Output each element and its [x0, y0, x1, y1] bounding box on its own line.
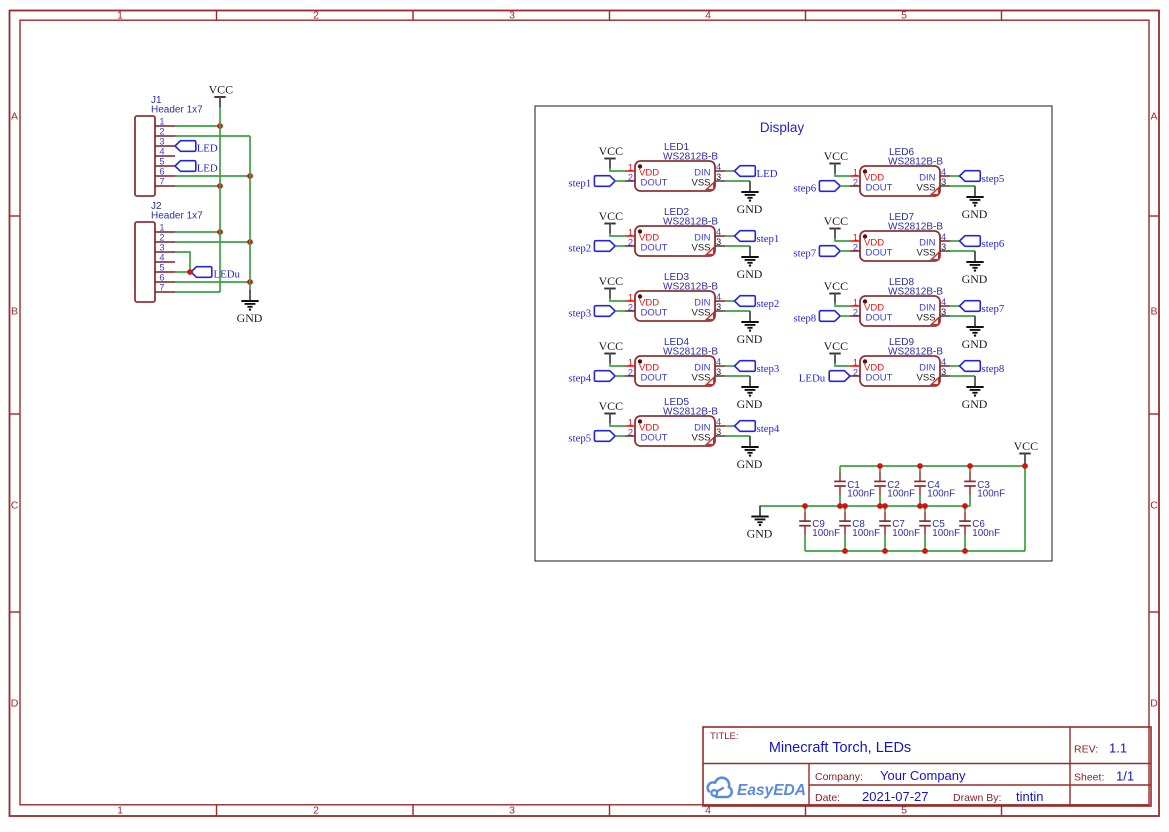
svg-text:1: 1 [853, 298, 858, 308]
svg-text:DOUT: DOUT [866, 313, 893, 324]
net label step3 at LED4 pin4 [735, 361, 780, 376]
wire LED3 pin3 to GND [725, 310, 750, 312]
svg-text:Display: Display [760, 120, 805, 135]
svg-text:step5: step5 [982, 173, 1005, 185]
net flag step1 at LED1 pin2 [568, 176, 615, 190]
connector J1 (Header 1x7) [135, 95, 203, 196]
svg-text:step3: step3 [568, 308, 591, 320]
LED9 pin 3 (VSS) [940, 367, 950, 377]
wire LED2 pin3 to GND [725, 245, 750, 247]
svg-text:100nF: 100nF [892, 528, 920, 539]
wire LED6 pin3 to GND [950, 185, 975, 187]
wire LED9 pin3 to GND [950, 375, 975, 377]
wire GND vertical net (left) [249, 136, 251, 292]
wire LED1 pin4 to net label LED [725, 170, 735, 172]
svg-text:VSS: VSS [691, 433, 710, 444]
net label LED at LED1 pin4 [735, 166, 778, 181]
svg-text:Date:: Date: [815, 792, 840, 804]
svg-text:3: 3 [159, 243, 164, 253]
wire GND middle rail (capacitor bank) [760, 505, 970, 507]
wire VCC to LED4 pin1 [610, 363, 625, 366]
svg-text:4: 4 [716, 227, 721, 237]
svg-text:1: 1 [159, 117, 164, 127]
capacitor C8 100nF [839, 506, 880, 551]
svg-text:step7: step7 [982, 303, 1005, 315]
svg-text:Company:: Company: [815, 771, 863, 783]
svg-text:3: 3 [941, 177, 946, 187]
svg-text:step6: step6 [793, 183, 816, 195]
svg-text:step1: step1 [757, 233, 780, 245]
wire VCC bottom rail (capacitor bank) [805, 550, 1025, 552]
LED8 pin 4 (DIN) [940, 297, 950, 307]
LED1 pin 1 (VDD) [625, 163, 635, 173]
LED8 pin 3 (VSS) [940, 307, 950, 317]
svg-text:3: 3 [941, 307, 946, 317]
svg-text:1.1: 1.1 [1109, 741, 1127, 756]
svg-text:WS2812B-B: WS2812B-B [888, 287, 943, 298]
svg-text:VSS: VSS [916, 183, 935, 194]
ground GND at LED3 [737, 311, 763, 346]
junction J1 pin7 / VCC [217, 183, 223, 189]
wire step3 to LED3 pin2 [615, 310, 625, 312]
LED6 pin 1 (VDD) [850, 168, 860, 178]
connector J2 (Header 1x7) [135, 201, 203, 302]
LED5 pin 3 (VSS) [715, 427, 725, 437]
wire step5 to LED5 pin2 [615, 435, 625, 437]
wire VCC to LED6 pin1 [835, 173, 850, 176]
wire LED9 pin4 to net label step8 [950, 365, 960, 367]
svg-text:4: 4 [716, 162, 721, 172]
svg-text:2: 2 [159, 127, 164, 137]
svg-text:3: 3 [716, 427, 721, 437]
op-amp-style IC LED8 WS2812B-B body [860, 277, 943, 326]
svg-text:VSS: VSS [691, 178, 710, 189]
svg-text:WS2812B-B: WS2812B-B [663, 217, 718, 228]
wire step7 to LED7 pin2 [840, 250, 850, 252]
svg-text:VSS: VSS [691, 308, 710, 319]
svg-text:4: 4 [716, 357, 721, 367]
svg-text:100nF: 100nF [932, 528, 960, 539]
LED2 pin 1 (VDD) [625, 228, 635, 238]
svg-text:1: 1 [159, 223, 164, 233]
wire LED1 pin3 to GND [725, 180, 750, 182]
wire step4 to LED4 pin2 [615, 375, 625, 377]
svg-text:100nF: 100nF [972, 528, 1000, 539]
svg-text:DOUT: DOUT [641, 178, 668, 189]
svg-text:2: 2 [628, 428, 633, 438]
junction J1 pin6 / GND [247, 173, 253, 179]
J1 pin 5 [155, 157, 175, 167]
svg-text:4: 4 [705, 10, 711, 22]
LED8 pin 1 (VDD) [850, 298, 860, 308]
ground GND at LED8 [962, 316, 988, 351]
svg-text:step2: step2 [568, 243, 591, 255]
svg-text:2: 2 [853, 308, 858, 318]
svg-text:1: 1 [628, 418, 633, 428]
svg-text:LEDu: LEDu [214, 269, 241, 281]
svg-text:WS2812B-B: WS2812B-B [663, 407, 718, 418]
svg-text:3: 3 [716, 172, 721, 182]
capacitor C1 100nF [834, 466, 875, 506]
wire VCC to LED5 pin1 [610, 423, 625, 426]
net label LEDu on J2 pin5 [191, 267, 240, 281]
J1 pin 4 [155, 147, 175, 157]
svg-text:2: 2 [853, 178, 858, 188]
svg-text:WS2812B-B: WS2812B-B [888, 347, 943, 358]
junction J2 pin6 / GND [247, 279, 253, 285]
net flag step6 at LED6 pin2 [793, 181, 840, 195]
J2 pin 5 [155, 263, 175, 273]
op-amp-style IC LED2 WS2812B-B body [635, 207, 718, 256]
svg-text:step1: step1 [568, 178, 591, 190]
wire LED6 pin4 to net label step5 [950, 175, 960, 177]
junctions GND middle rail [802, 503, 968, 509]
svg-text:2: 2 [628, 303, 633, 313]
svg-text:C: C [11, 500, 19, 512]
ground GND at LED6 [962, 186, 988, 221]
svg-text:1: 1 [628, 228, 633, 238]
J2 pin 4 [155, 253, 175, 263]
svg-text:DOUT: DOUT [641, 308, 668, 319]
wire VCC to LED9 pin1 [835, 363, 850, 366]
svg-text:7: 7 [159, 283, 164, 293]
svg-text:2: 2 [628, 173, 633, 183]
wire VCC vertical net (left) [219, 107, 221, 292]
svg-text:DOUT: DOUT [641, 433, 668, 444]
wire step2 to LED2 pin2 [615, 245, 625, 247]
svg-text:3: 3 [941, 367, 946, 377]
J2 pin 3 [155, 243, 175, 253]
net label LED on J1 pin5 [175, 161, 218, 175]
net flag step3 at LED3 pin2 [568, 306, 615, 320]
LED2 pin 3 (VSS) [715, 237, 725, 247]
op-amp-style IC LED1 WS2812B-B body [635, 142, 718, 191]
wire LED4 pin4 to net label step3 [725, 365, 735, 367]
svg-text:1: 1 [628, 358, 633, 368]
wire J2 pin1 to VCC net [175, 231, 220, 233]
power flag VCC at LED3 [599, 274, 624, 299]
LED7 pin 3 (VSS) [940, 242, 950, 252]
svg-text:3: 3 [716, 237, 721, 247]
display group box [535, 106, 1052, 561]
svg-text:D: D [11, 698, 19, 710]
svg-text:WS2812B-B: WS2812B-B [888, 222, 943, 233]
svg-text:4: 4 [159, 147, 164, 157]
net label step6 at LED7 pin4 [960, 236, 1005, 251]
junction J2 pin2 / GND [247, 239, 253, 245]
LED4 pin 4 (DIN) [715, 357, 725, 367]
svg-text:3: 3 [716, 302, 721, 312]
svg-text:4: 4 [941, 297, 946, 307]
wire J2 pin7 to VCC net [175, 291, 220, 293]
svg-text:WS2812B-B: WS2812B-B [663, 152, 718, 163]
power flag VCC at LED1 [599, 144, 624, 169]
LED2 pin 2 (DOUT) [625, 238, 635, 248]
wire LED8 pin3 to GND [950, 315, 975, 317]
ground GND at LED4 [737, 376, 763, 411]
svg-text:step2: step2 [757, 298, 780, 310]
junctions VCC bottom rail [842, 548, 968, 554]
svg-text:3: 3 [716, 367, 721, 377]
svg-text:4: 4 [716, 292, 721, 302]
svg-text:VSS: VSS [916, 248, 935, 259]
ground GND at LED1 [737, 181, 763, 216]
net flag LEDu at LED9 pin2 [799, 371, 850, 385]
svg-text:A: A [11, 111, 18, 123]
wire LED5 pin3 to GND [725, 435, 750, 437]
power flag VCC at LED6 [824, 149, 849, 174]
svg-text:step6: step6 [982, 238, 1005, 250]
svg-text:4: 4 [941, 232, 946, 242]
wire J1 pin2 to GND net [175, 135, 250, 137]
svg-text:5: 5 [901, 10, 907, 22]
op-amp-style IC LED6 WS2812B-B body [860, 147, 943, 196]
svg-text:7: 7 [159, 177, 164, 187]
op-amp-style IC LED5 WS2812B-B body [635, 397, 718, 446]
wire LED7 pin3 to GND [950, 250, 975, 252]
svg-text:1: 1 [853, 358, 858, 368]
svg-text:B: B [11, 306, 18, 318]
svg-text:Minecraft Torch, LEDs: Minecraft Torch, LEDs [769, 740, 911, 756]
svg-text:WS2812B-B: WS2812B-B [663, 282, 718, 293]
LED1 pin 4 (DIN) [715, 162, 725, 172]
svg-text:D: D [1150, 698, 1158, 710]
svg-text:4: 4 [716, 417, 721, 427]
svg-text:VSS: VSS [916, 373, 935, 384]
wire step6 to LED6 pin2 [840, 185, 850, 187]
svg-text:WS2812B-B: WS2812B-B [663, 347, 718, 358]
svg-text:Sheet:: Sheet: [1074, 772, 1104, 784]
svg-text:EasyEDA: EasyEDA [737, 782, 806, 799]
ground GND at LED2 [737, 246, 763, 281]
svg-text:3: 3 [941, 242, 946, 252]
title block [703, 727, 1151, 806]
wire VCC to LED1 pin1 [610, 168, 625, 171]
svg-text:DOUT: DOUT [866, 248, 893, 259]
net flag step4 at LED4 pin2 [568, 371, 615, 385]
svg-text:step3: step3 [757, 363, 780, 375]
svg-text:1: 1 [628, 163, 633, 173]
J1 pin 1 [155, 117, 175, 127]
net label step4 at LED5 pin4 [735, 421, 780, 436]
svg-text:tintin: tintin [1016, 789, 1043, 804]
svg-text:6: 6 [159, 167, 164, 177]
LED7 pin 4 (DIN) [940, 232, 950, 242]
svg-text:LED: LED [197, 142, 218, 154]
wire VCC to LED2 pin1 [610, 233, 625, 236]
J1 pin 7 [155, 177, 175, 187]
J1 pin 2 [155, 127, 175, 137]
wire VCC top rail (capacitor bank) [840, 465, 1025, 467]
svg-text:VSS: VSS [691, 373, 710, 384]
net label step5 at LED6 pin4 [960, 171, 1005, 186]
svg-text:LED: LED [757, 168, 778, 180]
capacitor C5 100nF [919, 506, 960, 551]
capacitor C3 100nF [964, 466, 1005, 506]
power flag VCC at LED8 [824, 279, 849, 304]
LED4 pin 3 (VSS) [715, 367, 725, 377]
LED3 pin 3 (VSS) [715, 302, 725, 312]
LED7 pin 1 (VDD) [850, 233, 860, 243]
svg-text:2: 2 [313, 805, 319, 817]
LED6 pin 3 (VSS) [940, 177, 950, 187]
LED4 pin 1 (VDD) [625, 358, 635, 368]
svg-text:4: 4 [159, 253, 164, 263]
net flag step2 at LED2 pin2 [568, 241, 615, 255]
svg-text:DOUT: DOUT [641, 243, 668, 254]
LED3 pin 4 (DIN) [715, 292, 725, 302]
power flag VCC at LED4 [599, 339, 624, 364]
ground GND (left header area) [237, 290, 263, 325]
LED3 pin 2 (DOUT) [625, 303, 635, 313]
svg-text:step4: step4 [757, 423, 780, 435]
svg-text:4: 4 [941, 357, 946, 367]
junctions VCC top rail [877, 463, 1028, 469]
net flag step5 at LED5 pin2 [568, 431, 615, 445]
power flag VCC at LED9 [824, 339, 849, 364]
LED9 pin 4 (DIN) [940, 357, 950, 367]
svg-text:B: B [1150, 306, 1157, 318]
LED9 pin 2 (DOUT) [850, 368, 860, 378]
op-amp-style IC LED3 WS2812B-B body [635, 272, 718, 321]
power flag VCC (capacitor bank) [1014, 439, 1039, 464]
LED2 pin 4 (DIN) [715, 227, 725, 237]
svg-text:step5: step5 [568, 433, 591, 445]
svg-text:3: 3 [509, 805, 515, 817]
net label step2 at LED3 pin4 [735, 296, 780, 311]
J1 pin 3 [155, 137, 175, 147]
wire J2 pin5 to LEDu node [175, 271, 191, 273]
capacitor C7 100nF [879, 506, 920, 551]
svg-text:5: 5 [159, 263, 164, 273]
ground GND (capacitor bank) [747, 506, 773, 541]
svg-text:WS2812B-B: WS2812B-B [888, 157, 943, 168]
J1 pin 6 [155, 167, 175, 177]
svg-text:2: 2 [628, 238, 633, 248]
wire LED4 pin3 to GND [725, 375, 750, 377]
capacitor C4 100nF [914, 466, 955, 506]
wire J2 pin6 to GND net [175, 281, 250, 283]
svg-text:step4: step4 [568, 373, 591, 385]
net label LED on J1 pin3 [175, 141, 218, 155]
ground GND at LED9 [962, 376, 988, 411]
net label step7 at LED8 pin4 [960, 301, 1005, 316]
svg-text:1: 1 [853, 168, 858, 178]
LED8 pin 2 (DOUT) [850, 308, 860, 318]
wire J1 pin7 to VCC net [175, 185, 220, 187]
svg-text:2: 2 [853, 368, 858, 378]
svg-text:Your Company: Your Company [880, 768, 966, 783]
svg-text:TITLE:: TITLE: [710, 731, 739, 742]
wire VCC to LED3 pin1 [610, 298, 625, 301]
svg-text:DOUT: DOUT [866, 183, 893, 194]
svg-text:1/1: 1/1 [1116, 769, 1134, 784]
net label step8 at LED9 pin4 [960, 361, 1005, 376]
LED7 pin 2 (DOUT) [850, 243, 860, 253]
ground GND at LED5 [737, 436, 763, 471]
wire J1 pin6 to GND net [175, 175, 250, 177]
svg-text:3: 3 [159, 137, 164, 147]
power flag VCC at LED2 [599, 209, 624, 234]
svg-text:2: 2 [159, 233, 164, 243]
capacitor C6 100nF [959, 506, 1000, 551]
svg-text:5: 5 [159, 157, 164, 167]
svg-text:DOUT: DOUT [641, 373, 668, 384]
wire J1 pin1 to VCC net [175, 125, 220, 127]
LED4 pin 2 (DOUT) [625, 368, 635, 378]
EasyEDA logo [708, 778, 806, 799]
svg-text:LEDu: LEDu [799, 373, 826, 385]
net label step1 at LED2 pin4 [735, 231, 780, 246]
power flag VCC at LED7 [824, 214, 849, 239]
svg-text:REV:: REV: [1074, 744, 1098, 756]
svg-text:6: 6 [159, 273, 164, 283]
wire step8 to LED8 pin2 [840, 315, 850, 317]
svg-text:C: C [1150, 500, 1158, 512]
svg-text:2: 2 [313, 10, 319, 22]
LED5 pin 2 (DOUT) [625, 428, 635, 438]
junction LEDu node [187, 269, 193, 275]
wire VCC to LED8 pin1 [835, 303, 850, 306]
LED9 pin 1 (VDD) [850, 358, 860, 368]
svg-text:2021-07-27: 2021-07-27 [862, 789, 929, 804]
svg-text:100nF: 100nF [977, 489, 1005, 500]
J2 pin 6 [155, 273, 175, 283]
svg-text:DOUT: DOUT [866, 373, 893, 384]
svg-text:100nF: 100nF [812, 528, 840, 539]
wire LED8 pin4 to net label step7 [950, 305, 960, 307]
svg-text:step8: step8 [982, 363, 1005, 375]
junction J2 pin1 / VCC [217, 229, 223, 235]
svg-text:VSS: VSS [916, 313, 935, 324]
svg-text:4: 4 [941, 167, 946, 177]
op-amp-style IC LED9 WS2812B-B body [860, 337, 943, 386]
svg-text:100nF: 100nF [927, 489, 955, 500]
wire J2 pin3 to LEDu node [175, 252, 190, 272]
svg-text:100nF: 100nF [847, 489, 875, 500]
svg-text:100nF: 100nF [887, 489, 915, 500]
wire VCC right vertical (capacitor bank) [1024, 463, 1026, 551]
svg-text:100nF: 100nF [852, 528, 880, 539]
LED1 pin 2 (DOUT) [625, 173, 635, 183]
svg-text:step8: step8 [793, 313, 816, 325]
svg-text:LED: LED [197, 162, 218, 174]
svg-text:3: 3 [509, 10, 515, 22]
svg-text:1: 1 [628, 293, 633, 303]
J2 pin 2 [155, 233, 175, 243]
capacitor C9 100nF [799, 506, 840, 551]
LED1 pin 3 (VSS) [715, 172, 725, 182]
svg-text:1: 1 [117, 10, 123, 22]
svg-text:Header 1x7: Header 1x7 [151, 211, 203, 222]
svg-text:2: 2 [628, 368, 633, 378]
wire LED2 pin4 to net label step1 [725, 235, 735, 237]
net flag step8 at LED8 pin2 [793, 311, 840, 325]
op-amp-style IC LED7 WS2812B-B body [860, 212, 943, 261]
wire VCC to LED7 pin1 [835, 238, 850, 241]
LED6 pin 2 (DOUT) [850, 178, 860, 188]
J2 pin 1 [155, 223, 175, 233]
power flag VCC (left header area) [209, 83, 234, 108]
svg-text:step7: step7 [793, 248, 816, 260]
svg-text:1: 1 [853, 233, 858, 243]
power flag VCC at LED5 [599, 399, 624, 424]
LED5 pin 1 (VDD) [625, 418, 635, 428]
wire J2 pin2 to GND net [175, 241, 250, 243]
junction J1 pin1 / VCC [217, 123, 223, 129]
wire LED3 pin4 to net label step2 [725, 300, 735, 302]
wire LED5 pin4 to net label step4 [725, 425, 735, 427]
